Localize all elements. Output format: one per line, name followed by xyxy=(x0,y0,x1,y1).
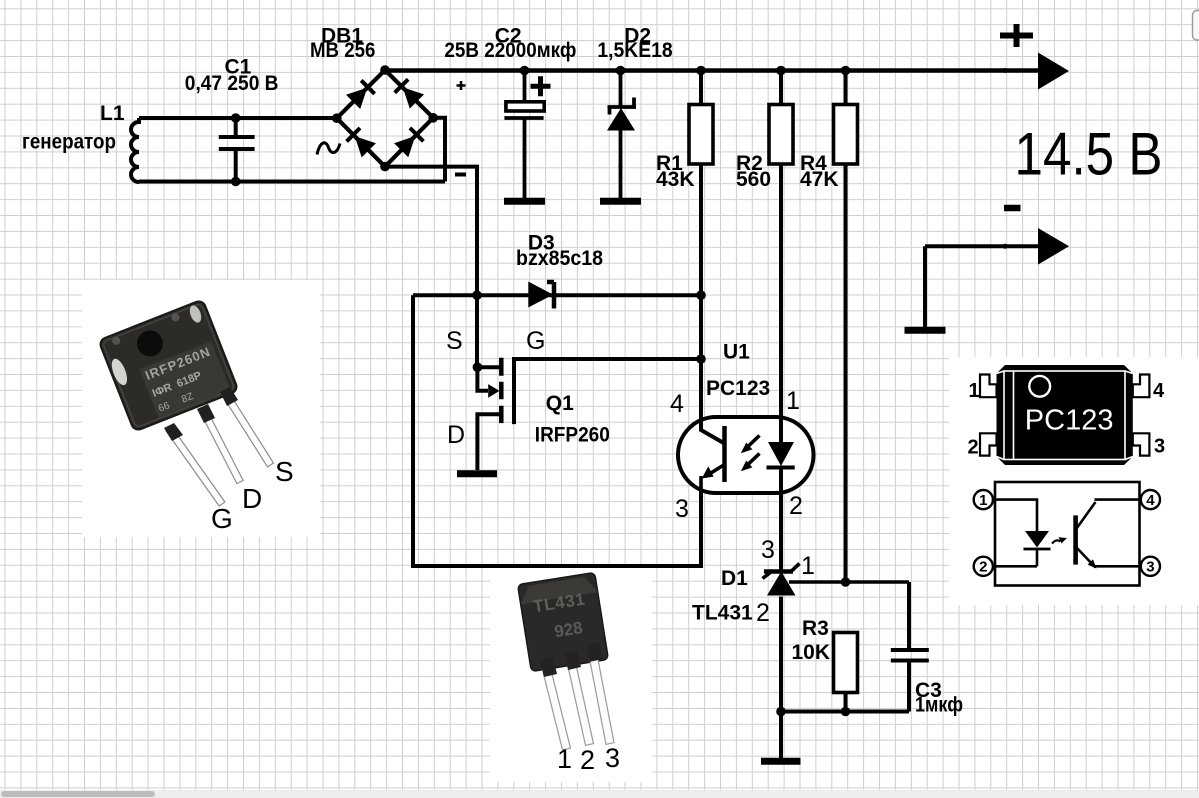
svg-text:1: 1 xyxy=(969,380,980,402)
svg-text:L1: L1 xyxy=(100,102,125,125)
svg-text:3: 3 xyxy=(605,743,620,773)
svg-text:U1: U1 xyxy=(723,341,750,364)
U1 LED cathode bar xyxy=(767,466,795,470)
ground minus output xyxy=(905,327,946,334)
svg-text:MB 256: MB 256 xyxy=(310,39,375,62)
svg-text:43K: 43K xyxy=(656,168,695,191)
white photo patch TL431 xyxy=(490,566,652,782)
svg-text:14.5 В: 14.5 В xyxy=(1015,121,1163,188)
svg-text:3: 3 xyxy=(1146,559,1154,576)
wire R3 bottom xyxy=(844,693,848,712)
wire D1 anode down xyxy=(779,597,783,712)
node rail R1 xyxy=(696,66,706,76)
svg-text:1мкф: 1мкф xyxy=(915,694,963,717)
DB1 diode bottom-left xyxy=(355,136,376,157)
svg-text:2: 2 xyxy=(979,559,987,576)
capacitor C3 xyxy=(891,582,929,712)
U1 light arrow 1 xyxy=(747,436,760,448)
mosfet Q1 drain wire xyxy=(477,414,501,470)
scrollbar right thumb xyxy=(1193,11,1199,41)
wire bridge minus to node S xyxy=(385,167,477,368)
feedback box xyxy=(413,295,701,566)
node C1 top xyxy=(231,113,241,123)
inductor L1 coil xyxy=(131,118,139,182)
label + C2 xyxy=(531,76,551,96)
svg-text:S: S xyxy=(446,327,463,355)
capacitor C2 xyxy=(504,71,543,199)
node C2 top xyxy=(520,66,530,76)
U1 LED triangle xyxy=(768,442,794,466)
wire top positive rail xyxy=(385,68,1040,73)
svg-text:47K: 47K xyxy=(800,168,839,191)
zener diode D3 xyxy=(528,282,553,308)
label + bridge xyxy=(457,81,466,90)
svg-text:4: 4 xyxy=(1153,380,1165,402)
label ~ AC xyxy=(317,143,340,155)
svg-text:TL431: TL431 xyxy=(692,602,753,625)
svg-text:3: 3 xyxy=(675,495,689,523)
output + arrowhead xyxy=(1038,53,1069,90)
U1 phototransistor collector xyxy=(701,417,725,444)
internal transistor base xyxy=(1073,515,1078,564)
node bridge top xyxy=(380,65,390,75)
svg-text:1,5KE18: 1,5KE18 xyxy=(597,39,673,62)
resistor R1 xyxy=(689,105,713,165)
node C1 bottom xyxy=(231,177,241,187)
svg-text:bzx85c18: bzx85c18 xyxy=(516,247,603,270)
capacitor C1 xyxy=(219,118,255,182)
svg-text:2: 2 xyxy=(968,437,979,459)
DB1 diode top-right xyxy=(403,87,424,108)
node rail R2 xyxy=(776,66,786,76)
node D3 row x477 xyxy=(472,290,482,300)
D1 triangle xyxy=(767,572,796,596)
svg-text:2: 2 xyxy=(789,492,803,520)
photo IRFP260N transistor xyxy=(98,299,273,506)
wire bottom node row xyxy=(781,710,909,714)
node bridge right xyxy=(428,113,438,123)
svg-text:IRFP260: IRFP260 xyxy=(535,424,610,447)
pin 3 xyxy=(1133,433,1150,455)
wire bridge AC2 xyxy=(433,118,445,182)
pin circles xyxy=(974,490,993,509)
svg-text:3: 3 xyxy=(1154,436,1165,458)
resistor R4 xyxy=(834,105,858,165)
node bottom D1 xyxy=(776,707,786,717)
svg-text:PC123: PC123 xyxy=(706,377,770,400)
svg-text:R3: R3 xyxy=(802,617,829,640)
label - bridge xyxy=(455,173,466,177)
resistor R2 xyxy=(769,105,793,165)
svg-text:1: 1 xyxy=(786,387,800,415)
node D3 row x701 xyxy=(696,290,706,300)
svg-text:2: 2 xyxy=(756,599,770,627)
photo TL431 xyxy=(518,572,614,749)
U1 phototransistor emitter xyxy=(701,465,725,494)
pin nubs xyxy=(458,69,462,73)
ground C2 xyxy=(504,198,545,205)
bridge rectifier DB1 diamond xyxy=(337,70,433,167)
node bridge left xyxy=(332,113,342,123)
U1 LED wire xyxy=(779,417,783,443)
output - arrowhead xyxy=(1038,228,1069,265)
wire minus output xyxy=(925,246,1040,327)
wire R4 column xyxy=(844,71,848,583)
svg-text:4: 4 xyxy=(670,390,684,418)
white photo patch IRFP260N xyxy=(82,280,320,537)
node bridge bottom xyxy=(380,162,390,172)
DB1 diode bottom-right xyxy=(394,136,415,157)
svg-text:1: 1 xyxy=(557,744,572,774)
wire D1 ref row xyxy=(789,580,909,584)
node gate U1 column xyxy=(696,354,706,364)
wire U1 pin2 to D1 xyxy=(779,468,783,572)
node ref row R4 xyxy=(841,577,851,587)
white patch PC123 drawings xyxy=(949,357,1199,605)
svg-text:Q1: Q1 xyxy=(546,392,574,415)
svg-text:G: G xyxy=(211,503,233,534)
DB1 diode top-left xyxy=(346,88,367,109)
legs xyxy=(166,427,225,506)
svg-text:2: 2 xyxy=(580,745,595,775)
svg-text:D: D xyxy=(242,483,262,514)
shunt regulator D1 TL431 bar xyxy=(764,569,793,574)
zener diode D2 xyxy=(608,71,637,199)
pin 4 xyxy=(1133,375,1150,398)
wire D1 to ground xyxy=(779,712,783,759)
svg-text:S: S xyxy=(275,456,294,487)
ground D1 xyxy=(761,758,801,765)
svg-text:560: 560 xyxy=(736,168,771,191)
internal collector xyxy=(1077,500,1142,529)
ground D2 xyxy=(600,198,641,205)
pin2 wire xyxy=(993,549,1037,566)
svg-text:10K: 10K xyxy=(792,641,831,664)
scrollbar bottom xyxy=(0,790,1199,798)
PC123 internal diagram xyxy=(974,482,1160,586)
pin1 wire xyxy=(993,500,1037,531)
svg-text:PC123: PC123 xyxy=(1025,405,1114,437)
svg-text:25В 22000мкф: 25В 22000мкф xyxy=(444,39,576,62)
wire L1 bottom xyxy=(139,180,445,184)
U1 light arrow 2 xyxy=(747,454,760,466)
wire D3 row xyxy=(413,293,701,297)
ground Q1 drain xyxy=(457,470,497,477)
PC123 package drawing xyxy=(980,365,1149,465)
node rail R4 xyxy=(841,66,851,76)
pin 1 xyxy=(980,375,997,398)
internal emitter xyxy=(1077,548,1142,568)
svg-text:1: 1 xyxy=(801,552,815,580)
mosfet Q1 gate xyxy=(514,359,701,424)
node Q1 source xyxy=(473,362,483,372)
mosfet Q1 channel plates xyxy=(499,358,504,423)
label - output xyxy=(1004,205,1021,212)
node bottom R3 xyxy=(841,707,851,717)
optocoupler U1 body xyxy=(678,417,814,493)
resistor R3 xyxy=(834,633,858,693)
D1 ref tabs xyxy=(763,564,800,579)
svg-text:G: G xyxy=(526,327,545,355)
wire L1 top xyxy=(139,116,337,120)
mosfet Q1 source wire xyxy=(477,367,502,391)
wire R2 column xyxy=(779,71,783,443)
svg-text:3: 3 xyxy=(761,536,775,564)
node D2 top xyxy=(616,66,626,76)
svg-text:D: D xyxy=(447,421,465,449)
light arrow small xyxy=(1052,540,1061,543)
label + output xyxy=(1000,24,1033,47)
svg-text:D1: D1 xyxy=(721,567,748,590)
svg-text:0,47 250 В: 0,47 250 В xyxy=(185,72,279,95)
wire R1 column xyxy=(699,71,703,431)
internal LED xyxy=(1025,531,1049,548)
svg-text:4: 4 xyxy=(1146,492,1155,509)
svg-text:1: 1 xyxy=(979,492,987,509)
U1 pin3 wire xyxy=(699,490,703,566)
U1 phototransistor base bar xyxy=(722,426,727,482)
mosfet Q1 body arrow xyxy=(488,384,499,398)
svg-text:генератор: генератор xyxy=(22,130,116,153)
pin 2 xyxy=(980,433,997,455)
